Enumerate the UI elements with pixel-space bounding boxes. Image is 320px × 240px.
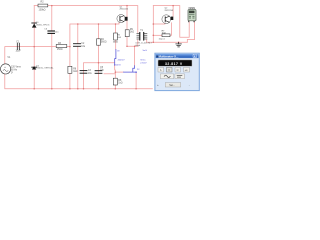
svg-text:32.817 V: 32.817 V — [165, 62, 183, 66]
buttons row 2 — [160, 74, 184, 79]
wire top rail A — [34, 6, 138, 33]
junction (136.1,88.7) — [135, 88, 137, 90]
wire R7 row — [153, 34, 162, 36]
junction (127,46.2) — [126, 45, 128, 47]
wire Q2 collector — [172, 6, 174, 17]
svg-text:150Ω: 150Ω — [57, 49, 63, 51]
junction (134.6,46.2) — [134, 45, 136, 47]
junction (98.5,24) — [98, 23, 100, 25]
junction (153.3,35.3) — [153, 35, 155, 37]
diode D2 — [32, 65, 55, 69]
svg-text:2N2222A: 2N2222A — [165, 9, 174, 12]
wire Q2 base — [153, 23, 165, 24]
svg-text:0°: 0° — [11, 73, 13, 75]
wire V1 top and C1 row — [5, 47, 70, 65]
junction (98.5,88.7) — [98, 88, 100, 90]
svg-text:5mV: 5mV — [143, 50, 148, 52]
buttons row 1 — [158, 67, 190, 72]
junction (173.1,5.6) — [172, 5, 174, 7]
wire y73.7 stub — [104, 73, 115, 75]
svg-text:2.5mV: 2.5mV — [140, 62, 147, 64]
wire C3 branch with mid horizontal — [84, 63, 115, 89]
svg-text:1N4GL_HP1#b: 1N4GL_HP1#b — [36, 25, 50, 27]
junction (51.8,5.6) — [51, 5, 53, 7]
svg-text:Set...: Set... — [169, 84, 175, 87]
junction (115.5,24) — [115, 23, 117, 25]
wire below jog G — [135, 72, 137, 89]
junction (51.8,88.7) — [51, 88, 53, 90]
resistor R9 vertical — [125, 29, 134, 37]
junction (127,5.6) — [126, 5, 128, 7]
wire V1 bottom and ground rail — [5, 74, 153, 89]
svg-text:1kΩ: 1kΩ — [118, 83, 122, 85]
svg-text:Ω: Ω — [177, 69, 179, 72]
ground symbol — [176, 42, 182, 47]
svg-text:2N2222A: 2N2222A — [120, 8, 129, 11]
junction (136.1,72.1) — [135, 71, 137, 73]
junction (77.8,88.7) — [77, 88, 79, 90]
transformer T1 — [135, 30, 152, 47]
wire blue probe jog G — [133, 66, 135, 72]
resistor R3 — [56, 43, 67, 51]
junction (69.9,46.6) — [69, 46, 71, 48]
svg-text:250mV: 250mV — [118, 60, 125, 62]
junction (83.5,88.7) — [83, 88, 85, 90]
resistor R8 vertical — [113, 78, 122, 85]
capacitor C1 — [16, 41, 22, 52]
AC source V1 — [1, 56, 22, 75]
junction (69.9,88.7) — [69, 88, 71, 90]
svg-text:120 Vrms: 120 Vrms — [11, 65, 22, 68]
wire R5 descent — [115, 24, 117, 33]
capacitor C3 — [80, 70, 92, 75]
svg-text:GI: GI — [117, 50, 120, 52]
capacitor C2 — [74, 43, 86, 48]
wire R7 to Q2 emitter — [170, 23, 172, 36]
wire W1 branch — [51, 6, 53, 89]
junction (34.2,46.6) — [33, 46, 35, 48]
wire ground bus right step — [187, 22, 194, 43]
svg-text:560Ω: 560Ω — [101, 41, 107, 43]
wire Q2 bias vertical — [152, 6, 154, 43]
junction (98.5,62.8) — [98, 62, 100, 64]
wire R5 below box — [115, 40, 117, 50]
wire below jog F — [114, 66, 117, 79]
transistor Q1 — [117, 6, 129, 22]
svg-text:1kΩ: 1kΩ — [117, 37, 121, 39]
svg-text:250mV: 250mV — [114, 65, 121, 67]
wire T1 descent — [134, 46, 136, 66]
wire C2 branch — [77, 24, 79, 89]
svg-text:1kΩ: 1kΩ — [130, 31, 134, 33]
wire diode branch — [33, 6, 35, 89]
svg-text:1kΩ_5: 1kΩ_5 — [159, 38, 166, 40]
wire base bus — [70, 22, 119, 88]
svg-text:Vrms:: Vrms: — [140, 58, 146, 61]
wire R8 to rail — [114, 85, 116, 89]
wire R9 branch — [127, 6, 138, 47]
multimeter icon XMM1 — [188, 8, 196, 22]
wire T1 secondary to ground bus — [147, 40, 188, 42]
svg-text:Aayb: Aayb — [135, 44, 141, 47]
svg-text:1mH_1e-005 NLT: 1mH_1e-005 NLT — [135, 42, 152, 44]
resistor R4 vertical — [97, 39, 107, 45]
title bar — [156, 54, 199, 58]
display — [158, 60, 192, 66]
resistor R7 horizontal — [159, 31, 171, 41]
capacitor C5 — [95, 67, 105, 73]
diode D1 — [32, 22, 50, 27]
svg-text:60 Hz: 60 Hz — [11, 69, 18, 71]
resistor R5 vertical — [113, 33, 122, 43]
junction (115.3,88.7) — [115, 88, 117, 90]
wire blue probe jog F — [115, 50, 116, 66]
close button — [193, 54, 197, 57]
multimeter panel window — [155, 53, 199, 90]
wire R4 C5 branch — [98, 24, 100, 89]
junction (153.3,24) — [153, 23, 155, 25]
svg-text:Multimeter-X...: Multimeter-X... — [159, 54, 179, 58]
resistor R2 — [38, 1, 48, 12]
svg-text:1N4GL_VIRTUAL: 1N4GL_VIRTUAL — [36, 67, 54, 70]
transistor Q2 — [162, 8, 174, 24]
svg-text:560Ω: 560Ω — [113, 41, 118, 43]
junction (178.6,42.3) — [178, 42, 180, 44]
svg-text:10uF: 10uF — [16, 51, 22, 53]
capacitor C7 on W1 — [44, 28, 59, 33]
resistor R6 vertical — [68, 66, 78, 73]
junction (115.3,72.1) — [115, 71, 117, 73]
svg-text:+: + — [157, 83, 159, 87]
svg-text:1kΩ: 1kΩ — [73, 71, 77, 73]
svg-text:1kΩ: 1kΩ — [162, 33, 166, 35]
svg-text:100kΩ: 100kΩ — [39, 9, 46, 12]
junction (153.3,42.3) — [153, 42, 155, 44]
wire top rail B — [153, 6, 189, 38]
junction (34.2,88.7) — [33, 88, 35, 90]
svg-text:-: - — [189, 83, 190, 87]
junction (77.8,24) — [77, 23, 79, 25]
